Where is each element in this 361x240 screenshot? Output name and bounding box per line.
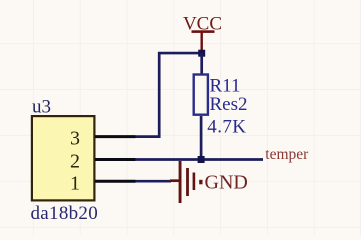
- svg-text:1: 1: [70, 173, 80, 195]
- ground stem: [170, 179, 179, 182]
- wire pin2 temper net: [136, 158, 264, 161]
- pin 1 stub: [95, 180, 136, 183]
- resistor R11 body: [194, 75, 208, 115]
- ground bar 3: [193, 173, 196, 191]
- svg-text:GND: GND: [205, 172, 248, 194]
- power port VCC bar: [192, 30, 215, 33]
- wire junction to resistor top: [200, 53, 203, 74]
- svg-text:3: 3: [70, 128, 80, 150]
- power port VCC stem: [201, 32, 203, 52]
- svg-text:4.7K: 4.7K: [207, 116, 246, 137]
- junction at temper node: [198, 156, 205, 163]
- ground bar 2: [186, 168, 189, 196]
- junction at VCC node: [198, 50, 205, 57]
- svg-text:da18b20: da18b20: [31, 203, 99, 224]
- pin 3 stub: [95, 135, 136, 138]
- IC U3 body: [32, 116, 95, 200]
- ground bar 1: [179, 161, 182, 203]
- svg-text:2: 2: [70, 151, 80, 173]
- wire pin3 to VCC junction: [136, 53, 202, 137]
- svg-text:Res2: Res2: [210, 94, 248, 115]
- pin 2 stub: [95, 158, 136, 161]
- ground bar 4: [199, 180, 202, 185]
- svg-text:u3: u3: [32, 96, 51, 117]
- wire resistor bottom to temper junction: [200, 116, 203, 160]
- wire pin1 to ground: [136, 180, 172, 183]
- svg-text:temper: temper: [265, 146, 309, 163]
